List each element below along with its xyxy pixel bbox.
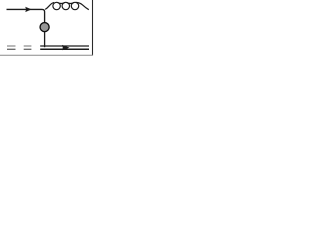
dashed double line (left, reggeon/pomeron) upper [7,45,31,47]
frame border bottom [0,54,93,56]
solid double line (right, hadron) lower [40,48,89,50]
quark line q1 (incoming, top-left) [7,9,45,22]
frame border right [92,0,94,55]
gluon coil g1 [45,2,89,9]
dashed double line (left) lower [7,48,31,50]
arrowhead on hadron double line [62,45,70,50]
solid double line (right, hadron) upper [40,45,89,47]
wire from blob down to hadron line [44,32,46,48]
arrowhead on quark line [25,7,31,12]
blob (gray vertex circle) [40,23,49,32]
